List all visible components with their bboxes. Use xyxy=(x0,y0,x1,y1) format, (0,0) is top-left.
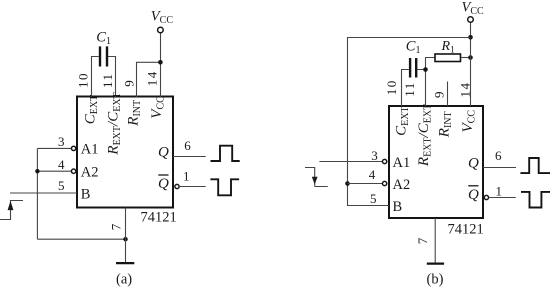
svg-text:7: 7 xyxy=(109,223,124,230)
svg-text:3: 3 xyxy=(371,148,378,163)
svg-text:5: 5 xyxy=(58,178,65,193)
svg-text:A2: A2 xyxy=(81,164,99,180)
svg-text:10: 10 xyxy=(384,79,399,95)
svg-text:B: B xyxy=(81,186,91,202)
svg-text:4: 4 xyxy=(58,157,65,172)
svg-text:5: 5 xyxy=(370,191,377,206)
svg-text:A1: A1 xyxy=(81,142,99,158)
svg-text:6: 6 xyxy=(184,138,191,153)
svg-text:1: 1 xyxy=(496,183,503,198)
svg-text:9: 9 xyxy=(432,92,447,99)
svg-text:Q: Q xyxy=(468,156,479,172)
svg-text:14: 14 xyxy=(457,82,472,98)
svg-text:10: 10 xyxy=(76,72,91,88)
svg-text:1: 1 xyxy=(183,168,190,183)
svg-text:Q: Q xyxy=(158,176,169,192)
svg-text:Q: Q xyxy=(468,187,479,203)
svg-text:14: 14 xyxy=(144,70,159,86)
svg-text:4: 4 xyxy=(369,167,376,182)
svg-text:(b): (b) xyxy=(427,272,444,288)
svg-text:11: 11 xyxy=(100,72,115,88)
svg-text:6: 6 xyxy=(495,148,502,163)
svg-text:B: B xyxy=(393,199,403,215)
svg-text:74121: 74121 xyxy=(141,209,177,225)
svg-text:7: 7 xyxy=(415,237,430,244)
svg-text:74121: 74121 xyxy=(448,221,484,237)
svg-text:(a): (a) xyxy=(116,272,132,288)
svg-text:A1: A1 xyxy=(393,155,411,171)
svg-text:11: 11 xyxy=(402,81,417,97)
svg-text:9: 9 xyxy=(121,80,136,87)
svg-text:A2: A2 xyxy=(393,177,411,193)
svg-text:3: 3 xyxy=(58,134,65,149)
svg-text:Q: Q xyxy=(158,145,169,161)
